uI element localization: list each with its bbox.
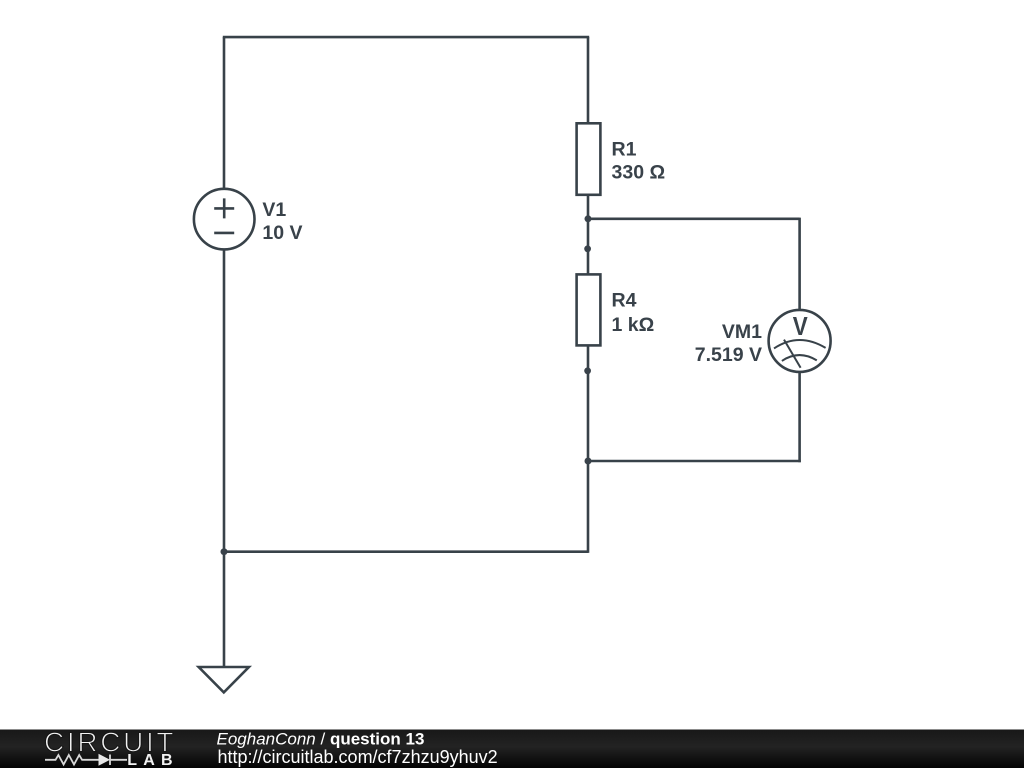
- ground: [199, 667, 249, 692]
- wire bottom node to ground: [223, 552, 226, 667]
- node VM1 return junction: [585, 458, 592, 465]
- wire VM1 bottom horizontal: [588, 460, 801, 463]
- logo diode triangle: [99, 754, 111, 766]
- wire node to VM1 top horizontal: [588, 218, 800, 221]
- node R1-bottom junction: [585, 215, 592, 222]
- wire top-left vertical (V1 top to corner): [223, 37, 226, 190]
- wire top horizontal: [223, 36, 589, 39]
- svg-text:R1: R1: [612, 138, 637, 160]
- wire node to R4 top terminal: [587, 219, 590, 249]
- svg-text:10 V: 10 V: [262, 222, 302, 244]
- svg-text:V1: V1: [262, 199, 286, 221]
- voltmeter VM1: [769, 310, 831, 372]
- svg-text:VM1: VM1: [722, 321, 762, 343]
- wire right vertical to R1 top: [587, 37, 590, 123]
- logo resistor-diode glyph: [45, 755, 127, 766]
- wire bottom horizontal: [224, 550, 588, 553]
- svg-text:EoghanConn / question 13: EoghanConn / question 13: [217, 729, 425, 748]
- node bottom-left junction: [221, 548, 228, 555]
- wire R4 bottom to corner: [587, 371, 590, 553]
- voltage source V1: [194, 189, 255, 250]
- svg-text:http://circuitlab.com/cf7zhzu9: http://circuitlab.com/cf7zhzu9yhuv2: [218, 747, 498, 767]
- resistor R4: [577, 249, 601, 371]
- resistor R1: [577, 123, 601, 219]
- wire V1 bottom to bottom node: [223, 249, 226, 551]
- svg-text:R4: R4: [612, 290, 637, 312]
- svg-text:1 kΩ: 1 kΩ: [612, 314, 655, 336]
- svg-text:330 Ω: 330 Ω: [612, 161, 666, 183]
- footer bar: [0, 727, 1024, 768]
- wire VM1 bottom vertical: [798, 372, 801, 462]
- wire VM1 top vertical: [798, 218, 801, 310]
- svg-text:V: V: [793, 313, 808, 342]
- svg-text:LAB: LAB: [127, 752, 172, 768]
- svg-text:7.519 V: 7.519 V: [695, 344, 762, 366]
- node R4 bottom terminal: [584, 367, 591, 374]
- node R4 top terminal: [584, 245, 591, 252]
